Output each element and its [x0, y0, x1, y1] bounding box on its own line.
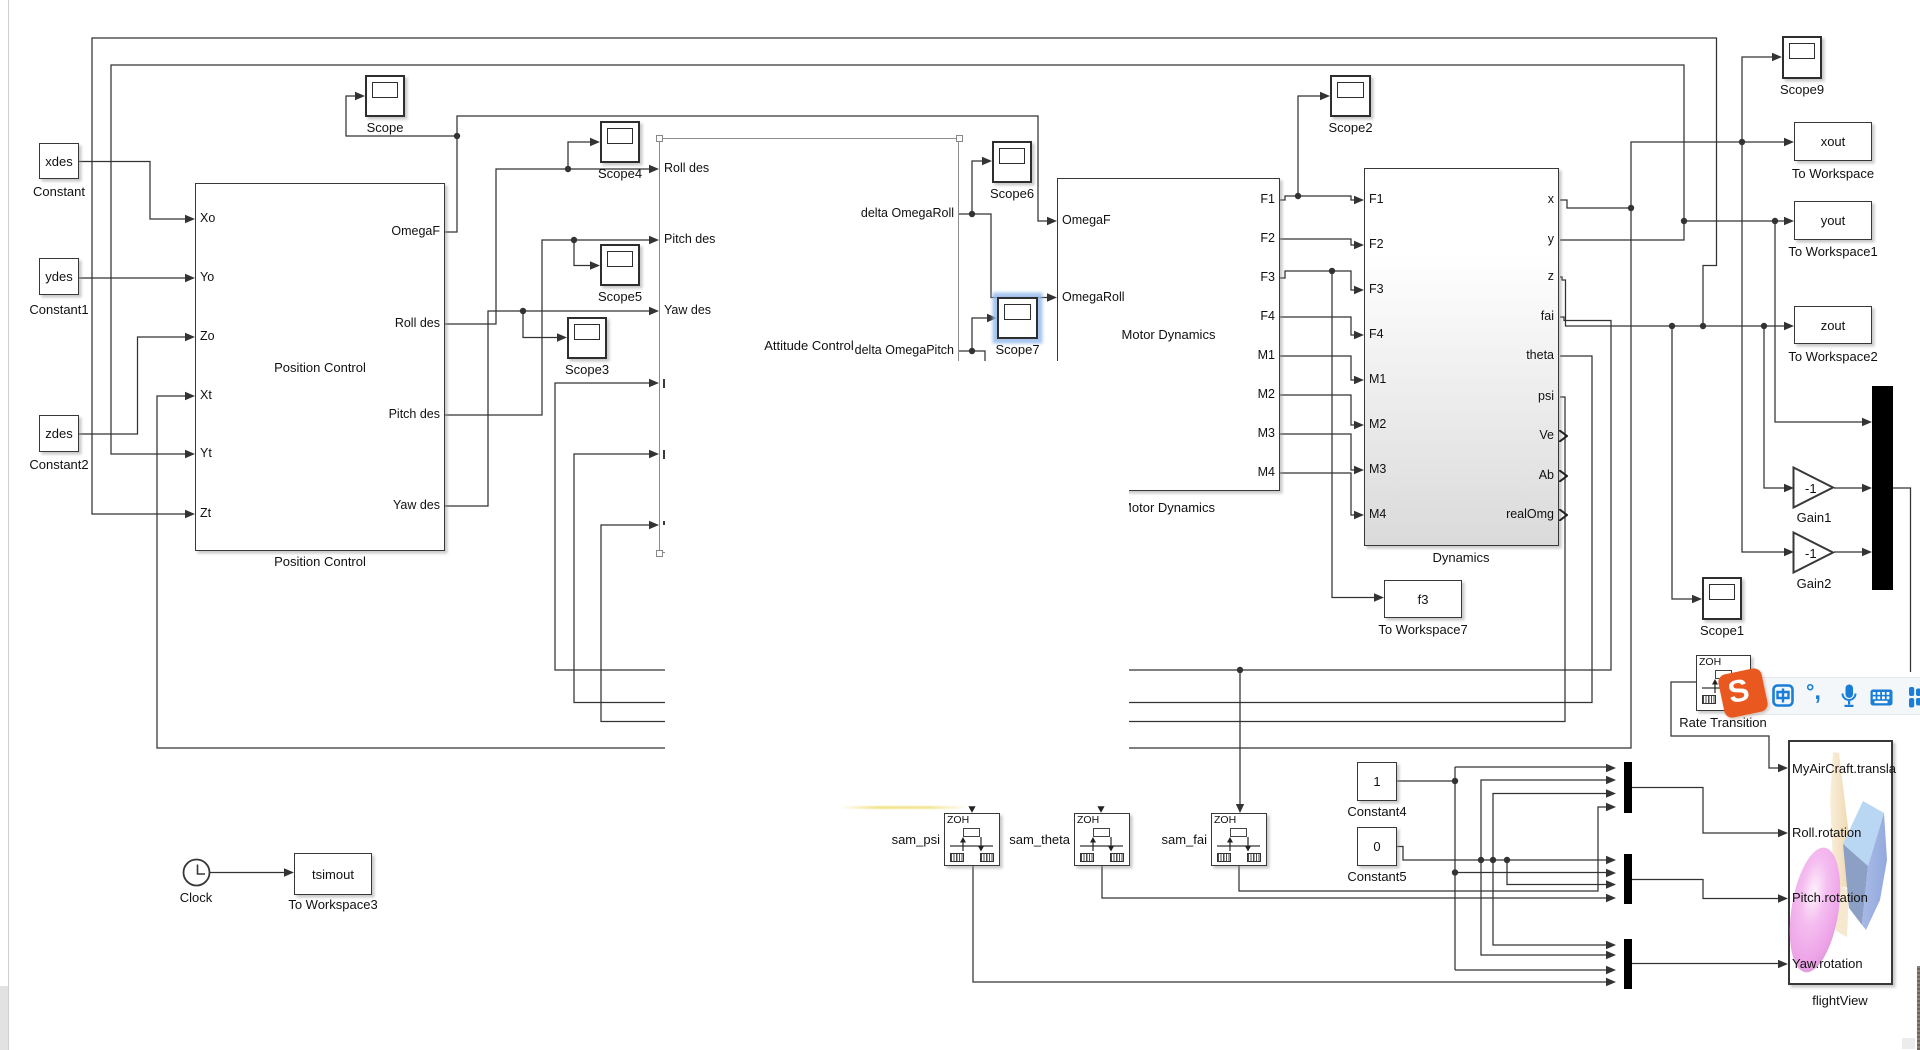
svg-text:-1: -1 [1805, 481, 1817, 496]
svg-text:-1: -1 [1805, 546, 1817, 561]
